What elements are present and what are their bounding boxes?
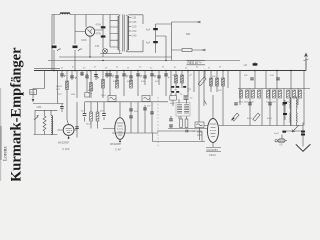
svg-text:4μ47: 4μ47	[274, 133, 280, 135]
svg-text:4μ: 4μ	[168, 77, 170, 79]
svg-text:C 4F: C 4F	[115, 148, 121, 152]
svg-text:Lorenz: Lorenz	[2, 146, 8, 161]
svg-text:WKZ2RBT: WKZ2RBT	[58, 142, 70, 145]
svg-text:C/FF: C/FF	[81, 38, 87, 42]
svg-text:4423: 4423	[267, 118, 273, 120]
svg-text:4μF: 4μF	[146, 29, 151, 32]
svg-text:C4C6: C4C6	[209, 153, 216, 157]
svg-text:WKZ2RBT: WKZ2RBT	[110, 143, 122, 146]
svg-text:≈40: ≈40	[243, 64, 248, 67]
svg-text:C 1FF: C 1FF	[62, 147, 70, 151]
svg-text:4402 4406 4408: 4402 4406 4408	[239, 102, 255, 104]
svg-text:4μ·17: 4μ·17	[88, 90, 94, 92]
svg-text:4421: 4421	[247, 118, 253, 120]
svg-text:220: 220	[132, 30, 137, 33]
svg-text:4706: 4706	[96, 33, 102, 36]
svg-text:WKZ2RBT: WKZ2RBT	[207, 149, 219, 152]
svg-text:110: 110	[132, 17, 136, 20]
svg-text:4704: 4704	[96, 24, 102, 27]
svg-text:478: 478	[95, 45, 100, 48]
svg-text:WKZ8: WKZ8	[56, 86, 63, 88]
svg-text:4μF: 4μF	[146, 42, 151, 45]
svg-text:125: 125	[132, 21, 137, 24]
svg-text:B41: B41	[186, 32, 191, 36]
svg-text:≈404: ≈404	[36, 106, 42, 109]
svg-text:Kurmark-Empfänger: Kurmark-Empfänger	[9, 47, 25, 181]
svg-text:150: 150	[132, 26, 137, 29]
svg-text:240: 240	[132, 35, 137, 38]
svg-text:A·B: A·B	[30, 91, 35, 95]
